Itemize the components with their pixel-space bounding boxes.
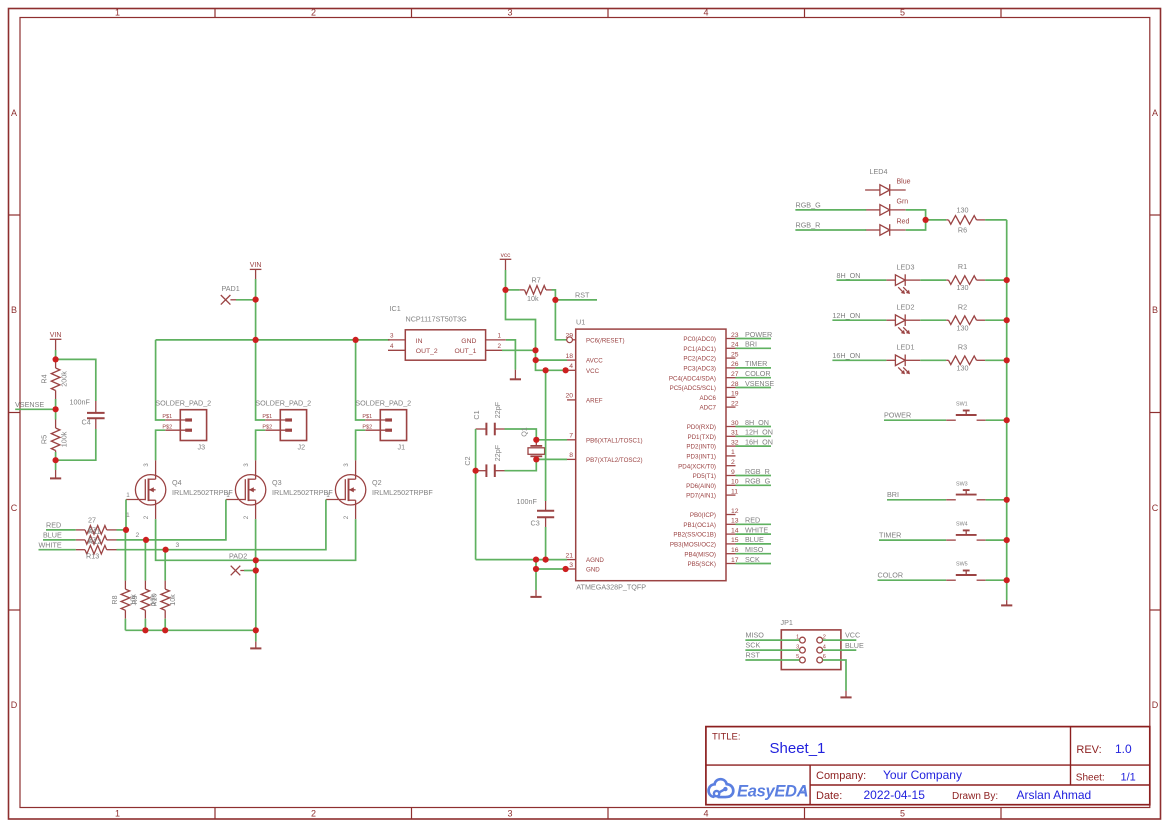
junction WHITE row <box>163 547 169 553</box>
U1 pin 26 PC3(ADC3) net TIMER <box>726 367 736 369</box>
svg-text:U1: U1 <box>576 318 585 327</box>
svg-text:WHITE: WHITE <box>745 525 768 534</box>
svg-text:PD7(AIN1): PD7(AIN1) <box>686 493 716 500</box>
svg-text:ATMEGA328P_TQFP: ATMEGA328P_TQFP <box>576 583 646 592</box>
svg-text:3: 3 <box>176 542 180 549</box>
wire R8 bottom lead <box>124 619 126 631</box>
svg-text:IC1: IC1 <box>390 304 401 313</box>
svg-text:RED: RED <box>46 521 61 530</box>
svg-text:RGB_G: RGB_G <box>745 477 771 486</box>
svg-text:LED4: LED4 <box>870 167 888 176</box>
svg-text:SOLDER_PAD_2: SOLDER_PAD_2 <box>255 398 311 407</box>
svg-text:PC5(ADC5/SCL): PC5(ADC5/SCL) <box>670 385 716 392</box>
svg-text:Arslan Ahmad: Arslan Ahmad <box>1017 788 1092 802</box>
LED4 Grn diode <box>865 209 880 211</box>
junction PAD2/bus <box>253 567 259 573</box>
svg-text:MISO: MISO <box>745 545 764 554</box>
wire JP1 pin4 BLUE <box>823 649 857 651</box>
junction VCC / crystal branch <box>543 367 549 373</box>
wire SW1 to bus <box>986 419 1007 421</box>
svg-text:PAD2: PAD2 <box>229 552 247 561</box>
wire R7 to RST node <box>552 290 556 300</box>
wire Q3 source down <box>255 519 257 560</box>
wire Q2 source to PAD2 row <box>256 519 356 560</box>
svg-text:PD2(INT0): PD2(INT0) <box>686 444 716 451</box>
svg-text:PD5(T1): PD5(T1) <box>693 473 716 480</box>
svg-text:PD0(RXD): PD0(RXD) <box>687 424 716 431</box>
EasyEDA logo <box>709 779 809 800</box>
svg-text:2: 2 <box>243 515 250 519</box>
wire POWER to switch <box>884 419 946 421</box>
wire bus to ground <box>1006 580 1008 600</box>
wire resistor to junction (RED) <box>117 529 127 531</box>
junction R1/bus <box>1004 277 1010 283</box>
JP1 pin 1 <box>800 637 806 643</box>
svg-text:PC3(ADC3): PC3(ADC3) <box>683 366 716 373</box>
svg-text:Grn: Grn <box>897 199 909 206</box>
wire RGB_R <box>795 229 866 231</box>
wire riser to J3 P$1 <box>156 340 166 420</box>
svg-text:SOLDER_PAD_2: SOLDER_PAD_2 <box>155 398 211 407</box>
svg-text:IRLML2502TRPBF: IRLML2502TRPBF <box>172 488 233 497</box>
svg-text:TITLE:: TITLE: <box>712 732 741 743</box>
svg-text:Drawn By:: Drawn By: <box>952 791 998 802</box>
svg-text:22: 22 <box>731 400 739 407</box>
LED4 Blue diode <box>865 189 880 191</box>
svg-text:3: 3 <box>507 8 512 18</box>
svg-text:130: 130 <box>957 323 969 332</box>
junction crystal top / pin 7 <box>533 437 539 443</box>
svg-text:1: 1 <box>731 449 735 456</box>
junction PAD1/VIN <box>253 297 259 303</box>
svg-text:Q4: Q4 <box>172 478 182 487</box>
svg-text:J3: J3 <box>198 442 206 451</box>
resistor (RED row) <box>76 529 85 531</box>
U1 pin 8 PB7(XTAL2/TOSC2) <box>567 458 576 460</box>
svg-text:LED1: LED1 <box>897 343 915 352</box>
svg-text:5: 5 <box>900 8 905 18</box>
JP1 pin 3 <box>800 647 806 653</box>
ground under PAD2 bus <box>255 630 257 641</box>
U1 pin 20 AREF <box>567 399 576 401</box>
wire Q4 source to PAD2 row <box>156 519 256 560</box>
wire LED1 to R3 <box>920 359 946 361</box>
junction R9 / bottom rail <box>142 627 148 633</box>
wire R1 to bus <box>985 279 1007 281</box>
svg-text:R2: R2 <box>958 302 967 311</box>
junction bus / bottom rail <box>253 627 259 633</box>
ground under JP1 <box>845 691 847 698</box>
resistor R4 200k <box>55 359 57 368</box>
svg-text:10k: 10k <box>168 594 177 606</box>
svg-text:1: 1 <box>126 492 130 499</box>
svg-text:LED2: LED2 <box>897 303 915 312</box>
junction AGND / GND riser <box>533 557 539 563</box>
svg-text:C: C <box>1152 503 1159 513</box>
wire Q2 gate riser (WHITE net) <box>166 500 326 550</box>
svg-text:16H_ON: 16H_ON <box>832 351 860 360</box>
svg-text:RED: RED <box>745 516 760 525</box>
svg-text:R6: R6 <box>958 225 967 234</box>
U1 pin 22 ADC7 <box>726 406 736 408</box>
U1 pin 14 PB2(SS/OC1B) net WHITE <box>726 533 736 535</box>
U1 pin 2 PD4(XCK/T0) <box>726 465 736 467</box>
resistor R9 10k <box>144 581 146 590</box>
svg-text:27: 27 <box>88 516 96 525</box>
wire R10 bottom lead <box>164 619 166 631</box>
svg-text:29: 29 <box>565 333 573 340</box>
svg-text:NCP1117ST50T3G: NCP1117ST50T3G <box>406 315 468 324</box>
title block <box>706 727 1150 805</box>
svg-text:C1: C1 <box>472 410 481 419</box>
svg-text:POWER: POWER <box>884 411 911 420</box>
wire right-hand GND bus <box>1006 220 1008 580</box>
svg-text:Q3: Q3 <box>272 478 282 487</box>
svg-text:1: 1 <box>226 492 230 499</box>
wire LED4 cathodes join <box>906 210 926 230</box>
wire R9 top lead <box>144 540 146 581</box>
capacitor C4 100nF <box>95 401 97 412</box>
wire BLUE to resistor <box>43 539 76 541</box>
junction PAD2 row / Q3 source <box>253 557 259 563</box>
wire Q4 gate riser <box>125 500 127 530</box>
wire COLOR to switch <box>878 579 947 581</box>
wire BRI to switch <box>887 499 946 501</box>
svg-text:Date:: Date: <box>816 790 842 802</box>
svg-text:20: 20 <box>565 393 573 400</box>
ground under IC1 <box>514 370 516 380</box>
wire TIMER to switch <box>879 539 946 541</box>
wire Q3 gate riser (BLUE net) <box>146 500 226 540</box>
svg-text:C4: C4 <box>82 418 91 427</box>
svg-text:TIMER: TIMER <box>879 530 901 539</box>
wire 16H_ON to LED <box>832 359 886 361</box>
svg-text:RST: RST <box>575 290 590 299</box>
junction VIN/R4/C4 top <box>53 356 59 362</box>
svg-text:R3: R3 <box>958 342 967 351</box>
svg-text:27: 27 <box>88 526 96 535</box>
svg-text:PB6(XTAL1/TOSC1): PB6(XTAL1/TOSC1) <box>586 437 643 444</box>
wire J2 P$2 to MOSFET drain <box>256 430 266 460</box>
svg-text:BLUE: BLUE <box>43 531 62 540</box>
svg-text:PB7(XTAL2/TOSC2): PB7(XTAL2/TOSC2) <box>586 457 643 464</box>
svg-text:2: 2 <box>311 809 316 819</box>
junction SW1/bus <box>1004 417 1010 423</box>
svg-text:VCC: VCC <box>586 368 600 375</box>
JP1 pin 6 <box>817 657 823 663</box>
U1 pin 24 PC1(ADC1) net BRI <box>726 347 736 349</box>
U1 pin 32 PD2(INT0) net 16H_ON <box>726 445 736 447</box>
svg-text:3: 3 <box>390 332 394 339</box>
resistor R5 100k <box>55 409 57 419</box>
svg-text:SCK: SCK <box>745 555 760 564</box>
svg-text:22pF: 22pF <box>493 401 502 418</box>
U1 pin 13 PB1(OC1A) net RED <box>726 523 736 525</box>
svg-text:RGB_R: RGB_R <box>745 467 770 476</box>
junction AGND / C3 <box>543 557 549 563</box>
wire SW3 to bus <box>986 499 1007 501</box>
wire RST to JP1 <box>745 659 799 661</box>
svg-text:Q2: Q2 <box>372 478 382 487</box>
svg-text:1.0: 1.0 <box>1115 742 1132 756</box>
wire VSENSE label <box>15 408 55 410</box>
svg-text:Sheet_1: Sheet_1 <box>770 740 826 757</box>
svg-text:1: 1 <box>498 332 502 339</box>
svg-text:3: 3 <box>507 809 512 819</box>
wire R6 to bus <box>985 219 1007 221</box>
junction crystal bottom / pin 8 <box>533 456 539 462</box>
svg-text:IRLML2502TRPBF: IRLML2502TRPBF <box>272 488 333 497</box>
svg-text:PB5(SCK): PB5(SCK) <box>687 561 716 568</box>
svg-text:3: 3 <box>243 463 250 467</box>
capacitor C2 22pF <box>476 470 487 472</box>
ground under switch bus <box>1006 600 1008 605</box>
svg-text:Red: Red <box>897 219 910 226</box>
U1 pin 29 inversion bubble <box>567 337 573 343</box>
svg-text:vcc: vcc <box>501 252 512 259</box>
svg-text:IN: IN <box>416 338 423 345</box>
svg-text:R10: R10 <box>150 593 159 606</box>
transistor Q2 IRLML2502TRPBF <box>326 460 366 519</box>
svg-text:Your Company: Your Company <box>883 768 962 782</box>
svg-text:VIN: VIN <box>50 332 62 339</box>
svg-text:22pF: 22pF <box>493 444 502 461</box>
svg-text:2: 2 <box>343 515 350 519</box>
wire RED to resistor <box>46 529 76 531</box>
svg-text:SW5: SW5 <box>956 562 968 568</box>
svg-text:IRLML2502TRPBF: IRLML2502TRPBF <box>372 488 433 497</box>
svg-text:PB2(SS/OC1B): PB2(SS/OC1B) <box>673 532 716 539</box>
wire 8H_ON to LED <box>837 279 887 281</box>
wire R2 to bus <box>985 319 1007 321</box>
wire VIN rail <box>156 339 390 341</box>
U1 pin 27 PC4(ADC4/SDA) net COLOR <box>726 377 736 379</box>
JP1 pin 5 <box>800 657 806 663</box>
wire LED2 to R2 <box>920 319 946 321</box>
U1 pin 11 PD7(AIN1) <box>726 494 736 496</box>
wire GND to ground symbol <box>535 569 537 590</box>
capacitor C1 22pF <box>476 428 487 430</box>
wire J3 P$2 to MOSFET drain <box>156 430 166 460</box>
svg-text:PB0(ICP): PB0(ICP) <box>690 512 716 519</box>
svg-text:10k: 10k <box>527 294 539 303</box>
wire R3 to bus <box>985 359 1007 361</box>
svg-text:SOLDER_PAD_2: SOLDER_PAD_2 <box>355 398 411 407</box>
svg-text:7: 7 <box>569 433 573 440</box>
junction AVCC tap <box>533 357 539 363</box>
resistor R2 130 <box>946 319 948 321</box>
svg-text:Blue: Blue <box>897 179 911 186</box>
U1 pin 28 PC5(ADC5/SCL) net VSENSE <box>726 387 736 389</box>
svg-text:OUT_2: OUT_2 <box>416 348 438 355</box>
svg-text:P$1: P$1 <box>262 414 272 420</box>
svg-text:16H_ON: 16H_ON <box>745 437 773 446</box>
wire C1/C2 left vertical to AGND <box>475 429 477 560</box>
svg-text:200k: 200k <box>60 371 69 387</box>
wire R9 bottom lead <box>144 619 146 631</box>
JP1 pin 4 <box>817 647 823 653</box>
svg-text:SW1: SW1 <box>956 402 968 408</box>
wire VIN flag to node <box>55 339 57 350</box>
svg-text:AGND: AGND <box>586 557 604 564</box>
svg-text:2: 2 <box>143 515 150 519</box>
svg-text:2: 2 <box>136 532 140 539</box>
ground under U1 GND <box>535 590 537 597</box>
junction VSENSE <box>53 406 59 412</box>
wire PAD1 to VIN net <box>236 299 256 301</box>
svg-text:100nF: 100nF <box>70 398 91 407</box>
U1 pin 19 ADC6 <box>726 396 736 398</box>
junction C2 left <box>473 468 479 474</box>
wire MISO to JP1 <box>745 639 799 641</box>
svg-text:3: 3 <box>569 562 573 569</box>
svg-text:RGB_R: RGB_R <box>796 221 821 230</box>
junction SW4/bus <box>1004 537 1010 543</box>
svg-text:EasyEDA: EasyEDA <box>737 783 808 801</box>
svg-text:2: 2 <box>311 8 316 18</box>
svg-text:A: A <box>1152 108 1158 118</box>
svg-text:LED3: LED3 <box>897 262 915 271</box>
svg-text:5: 5 <box>900 809 905 819</box>
junction R2/bus <box>1004 317 1010 323</box>
U1 pin 21 AGND <box>567 559 576 561</box>
junction RST <box>552 297 558 303</box>
wire IC1 OUT_1 to VCC net <box>502 349 536 351</box>
svg-text:OUT_1: OUT_1 <box>454 348 476 355</box>
svg-text:R5: R5 <box>40 435 49 444</box>
svg-text:PD4(XCK/T0): PD4(XCK/T0) <box>678 463 716 470</box>
svg-text:COLOR: COLOR <box>745 369 771 378</box>
svg-text:PC1(ADC1): PC1(ADC1) <box>683 346 716 353</box>
svg-text:P$1: P$1 <box>162 414 172 420</box>
wire J1 P$2 to MOSFET drain <box>356 430 366 460</box>
wire PAD2 vertical bus <box>255 560 257 630</box>
svg-text:12H_ON: 12H_ON <box>745 428 773 437</box>
svg-text:SCK: SCK <box>746 641 761 650</box>
svg-text:D: D <box>1152 700 1159 710</box>
junction VCC pin 4 wire end <box>563 367 569 373</box>
transistor Q4 IRLML2502TRPBF <box>126 460 166 519</box>
svg-text:130: 130 <box>957 205 969 214</box>
wire riser to J1 P$1 <box>356 340 366 420</box>
svg-text:C: C <box>11 503 18 513</box>
svg-text:PB3(MOSI/OC2): PB3(MOSI/OC2) <box>670 542 716 549</box>
junction RED row <box>123 527 129 533</box>
svg-text:3: 3 <box>343 463 350 467</box>
U1 pin 9 PD5(T1) net RGB_R <box>726 475 736 477</box>
svg-text:WHITE: WHITE <box>39 540 62 549</box>
U1 pin 25 PC2(ADC2) <box>726 357 736 359</box>
resistor R8 10k <box>124 581 126 590</box>
svg-text:PC2(ADC2): PC2(ADC2) <box>683 356 716 363</box>
U1 pin 16 PB4(MISO) net MISO <box>726 553 736 555</box>
wire C3 to AGND row <box>545 527 547 560</box>
wire resistor to junction (WHITE) <box>117 549 166 551</box>
svg-text:8: 8 <box>569 452 573 459</box>
svg-text:Q1: Q1 <box>520 427 529 437</box>
wire C2 to crystal bottom <box>505 459 537 470</box>
wire 12H_ON to LED <box>832 319 886 321</box>
junction VIN rail / J1 riser <box>353 337 359 343</box>
svg-text:12H_ON: 12H_ON <box>832 311 860 320</box>
svg-text:C2: C2 <box>463 456 472 465</box>
svg-text:1: 1 <box>126 512 130 519</box>
junction vcc / R7 <box>502 287 508 293</box>
svg-text:PC0(ADC0): PC0(ADC0) <box>683 336 716 343</box>
svg-text:8H_ON: 8H_ON <box>837 271 861 280</box>
svg-text:1: 1 <box>326 492 330 499</box>
svg-text:SW4: SW4 <box>956 522 968 528</box>
svg-text:1/1: 1/1 <box>1121 771 1136 783</box>
svg-text:MISO: MISO <box>746 631 765 640</box>
svg-text:RGB_G: RGB_G <box>796 200 822 209</box>
wire PAD2 to bus <box>244 570 256 572</box>
U1 pin 30 PD0(RXD) net 8H_ON <box>726 426 736 428</box>
svg-text:19: 19 <box>731 391 739 398</box>
wire RST to U1 pin 29 <box>555 300 566 340</box>
svg-text:D: D <box>11 700 18 710</box>
U1 pin 4 VCC <box>567 369 576 371</box>
junction SW3/bus <box>1004 497 1010 503</box>
svg-text:1: 1 <box>115 8 120 18</box>
svg-text:4: 4 <box>703 8 708 18</box>
svg-text:PD1(TXD): PD1(TXD) <box>687 434 716 441</box>
wire AVCC to U1 pin 18 <box>536 359 567 361</box>
svg-text:PB1(OC1A): PB1(OC1A) <box>683 522 716 529</box>
svg-text:3: 3 <box>143 463 150 467</box>
capacitor C3 100nF <box>545 501 547 510</box>
svg-text:ADC6: ADC6 <box>699 395 716 402</box>
svg-text:1: 1 <box>115 809 120 819</box>
svg-text:RST: RST <box>746 651 761 660</box>
U1 pin 10 PD6(AIN0) net RGB_G <box>726 484 736 486</box>
resistor R1 130 <box>946 279 948 281</box>
wire WHITE to resistor <box>39 549 76 551</box>
junction BLUE row <box>143 537 149 543</box>
junction R10 / bottom rail <box>162 627 168 633</box>
junction SW5/bus <box>1004 577 1010 583</box>
svg-text:REV:: REV: <box>1076 744 1101 756</box>
svg-text:TIMER: TIMER <box>745 359 767 368</box>
wire C1 to crystal top <box>505 429 537 440</box>
junction OUT_1 / VCC vertical <box>532 347 538 353</box>
svg-text:18: 18 <box>565 353 573 360</box>
svg-text:4: 4 <box>569 363 573 370</box>
wire C4 top branch <box>56 359 96 401</box>
wire vcc distribution to OUT_1/AVCC/VCC <box>506 290 566 370</box>
svg-text:R13: R13 <box>86 552 99 561</box>
wire SW4 to bus <box>986 539 1007 541</box>
svg-text:100nF: 100nF <box>517 497 538 506</box>
svg-text:2022-04-15: 2022-04-15 <box>864 788 926 802</box>
LED4 Red diode <box>865 229 880 231</box>
svg-text:PC4(ADC4/SDA): PC4(ADC4/SDA) <box>669 375 716 382</box>
wire riser to J2 P$1 <box>256 340 266 420</box>
U1 pin 12 PB0(ICP) <box>726 514 736 516</box>
svg-text:GND: GND <box>461 338 476 345</box>
svg-text:BLUE: BLUE <box>745 535 764 544</box>
svg-text:R7: R7 <box>532 276 541 285</box>
svg-text:130: 130 <box>957 283 969 292</box>
wire JP1 pin2 VCC <box>823 639 857 641</box>
wire JP1 pin6 to ground <box>823 660 846 691</box>
wire VIN down to rail <box>255 300 257 340</box>
power flag VIN (top) <box>250 268 262 270</box>
power flag VIN (left) <box>50 338 62 340</box>
wire SCK to JP1 <box>745 649 799 651</box>
svg-text:PD6(AIN0): PD6(AIN0) <box>686 483 716 490</box>
wire R10 top lead <box>164 550 166 581</box>
